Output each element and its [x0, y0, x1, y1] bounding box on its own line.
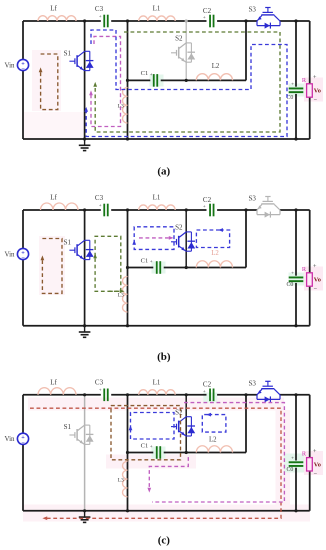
wash input loop (b) — [39, 236, 65, 295]
wire C0 branch (a) — [295, 21, 297, 87]
ground (b) — [84, 326, 86, 332]
current loop blue around L2 (b) — [196, 230, 229, 248]
capacitor C2 (c) — [209, 389, 211, 402]
wire top rail (a) — [23, 20, 101, 22]
svg-text:C3: C3 — [95, 5, 104, 13]
wash capacitor C1 (a) — [150, 75, 164, 87]
wire L3 branch (c) — [127, 395, 129, 511]
svg-text:−: − — [313, 470, 317, 477]
wire left rail (c) — [22, 395, 24, 511]
wash capacitor C0 (c) — [284, 454, 304, 473]
wash resistor R (a) — [304, 78, 323, 102]
wire left rail (a) — [22, 21, 24, 139]
current loop red (c) — [30, 408, 281, 518]
svg-text:−: − — [21, 255, 25, 262]
current arrow magenta (b) — [139, 237, 170, 239]
switch S3 (c) — [256, 395, 258, 400]
svg-text:+: + — [99, 204, 102, 209]
svg-text:L2: L2 — [212, 63, 220, 70]
svg-text:(c): (c) — [158, 535, 171, 547]
voltage source Vin (c) — [17, 433, 28, 444]
wash lower-left (a) — [24, 112, 84, 138]
svg-text:Vin: Vin — [4, 250, 15, 258]
node S2-top (b) — [185, 208, 188, 211]
wire S1 branch (b) — [84, 210, 86, 326]
node S1-bottom (a) — [83, 137, 86, 140]
svg-text:C1: C1 — [141, 70, 149, 77]
svg-text:L1: L1 — [153, 379, 161, 387]
svg-text:S1: S1 — [64, 238, 72, 246]
svg-text:(b): (b) — [157, 351, 171, 363]
svg-text:L2: L2 — [211, 250, 219, 257]
svg-text:C2: C2 — [203, 196, 212, 204]
svg-text:S2: S2 — [175, 35, 183, 43]
inductor L3 (a) — [123, 88, 128, 124]
svg-text:L2: L2 — [209, 436, 217, 443]
capacitor C3 (b) — [103, 204, 105, 217]
svg-text:−: − — [21, 440, 25, 447]
svg-text:Vin: Vin — [4, 61, 15, 69]
svg-text:L3: L3 — [118, 293, 124, 299]
inductor Lf (a) — [38, 16, 76, 21]
wash right band (c) — [276, 410, 291, 505]
wash input loop (a) — [32, 50, 61, 111]
inductor L1 (b) — [139, 205, 176, 210]
svg-text:S3: S3 — [248, 380, 256, 388]
node L3-bottom (a) — [126, 137, 129, 140]
ground (a) — [84, 139, 86, 145]
inductor L3 (c) — [123, 461, 128, 497]
svg-text:C1: C1 — [141, 257, 149, 264]
svg-text:+: + — [203, 16, 206, 21]
svg-text:+: + — [150, 73, 153, 78]
node join-top (c) — [244, 393, 247, 396]
wash capacitor C1 (b) — [152, 262, 166, 274]
node C0-bottom (a) — [294, 137, 297, 140]
node L3-bottom (b) — [126, 324, 129, 327]
wire S2 branch (c) — [185, 395, 187, 453]
inductor L1 (c) — [139, 390, 176, 395]
svg-text:L3: L3 — [118, 477, 124, 483]
node L3-top (c) — [126, 393, 129, 396]
resistor R load (a) — [307, 84, 313, 97]
inductor L2 (a) — [196, 74, 232, 81]
current loop blue around L1 (b) — [134, 227, 174, 250]
current loop magenta inner (c) — [149, 457, 188, 489]
node S1-bottom (c) — [83, 509, 86, 512]
capacitor C3 (a) — [103, 15, 105, 28]
inductor Lf (c) — [38, 388, 76, 395]
node S1-top (a) — [83, 19, 86, 22]
resistor R load (b) — [307, 273, 313, 286]
ground (c) — [84, 511, 86, 517]
svg-text:S3: S3 — [248, 6, 256, 14]
voltage source Vin (b) — [17, 248, 28, 259]
switch S3 (a) — [256, 21, 258, 26]
svg-text:−: − — [313, 97, 317, 104]
voltage source Vin (a) — [17, 59, 28, 70]
switch S1 (a) — [69, 60, 75, 62]
svg-text:C3: C3 — [95, 194, 104, 202]
svg-text:+: + — [150, 260, 153, 265]
node C0-top (c) — [294, 393, 297, 396]
wire top-mid join (c) — [245, 395, 247, 453]
node C0-top (a) — [294, 19, 297, 22]
current loop magenta outer (c) — [152, 403, 284, 502]
svg-text:S2: S2 — [175, 224, 183, 232]
svg-text:C0: C0 — [286, 282, 293, 288]
node C0-top (b) — [294, 208, 297, 211]
node S1-bottom (b) — [83, 324, 86, 327]
node L3-mid (c) — [126, 451, 129, 454]
wire bottom rail (a) — [23, 138, 310, 140]
node S2-mid (a) — [185, 79, 188, 82]
node S1-top (c) — [83, 393, 86, 396]
node S2-mid (c) — [185, 451, 188, 454]
svg-text:C1: C1 — [141, 442, 149, 449]
svg-text:+: + — [313, 263, 317, 270]
current loop green (b) — [95, 236, 121, 291]
node S2-mid (b) — [185, 266, 188, 269]
svg-text:Vo: Vo — [314, 88, 321, 95]
node L3-bottom (c) — [126, 509, 129, 512]
svg-text:Lf: Lf — [50, 378, 57, 386]
current loop blue around L2 (c) — [202, 415, 226, 433]
wire C0 branch (b) — [295, 210, 297, 276]
svg-text:+: + — [291, 82, 294, 88]
svg-text:−: − — [21, 66, 25, 73]
svg-text:C3: C3 — [95, 379, 104, 387]
wash mid band (c) — [106, 455, 196, 469]
capacitor C2 (a) — [209, 15, 211, 28]
current loop magenta (a) — [91, 36, 121, 126]
svg-text:L1: L1 — [153, 5, 161, 13]
inductor L1 (a) — [139, 16, 176, 21]
wire S2 branch (b) — [185, 210, 187, 268]
capacitor C0 (c) — [289, 461, 304, 463]
node C0-bottom (c) — [294, 509, 297, 512]
inductor L2 (c) — [196, 446, 232, 453]
svg-text:S3: S3 — [248, 195, 256, 203]
wire L3 branch (b) — [127, 210, 129, 326]
svg-text:C2: C2 — [203, 381, 212, 389]
wire top-mid join (b) — [245, 210, 247, 268]
switch S2 (b) — [171, 241, 177, 243]
switch S2 (c) — [171, 426, 177, 428]
svg-text:Vin: Vin — [4, 435, 15, 443]
switch S2 (a) — [171, 52, 177, 54]
node join-top (b) — [244, 208, 247, 211]
node C0-bottom (b) — [294, 324, 297, 327]
node L3-mid (a) — [126, 79, 129, 82]
wire right rail (b) — [309, 210, 311, 273]
node S1-top (b) — [83, 208, 86, 211]
wire L3 branch (a) — [127, 21, 129, 139]
current loop blue (a) — [86, 30, 287, 137]
capacitor C1 (a) — [153, 74, 155, 87]
wire S1 branch (a) — [84, 21, 86, 139]
svg-text:Vo: Vo — [314, 277, 321, 284]
svg-text:+: + — [291, 455, 294, 461]
current loop green (a) — [95, 32, 280, 132]
current loop brown (a) — [41, 54, 58, 110]
node L3-mid (b) — [126, 266, 129, 269]
wire left rail (b) — [22, 210, 24, 326]
inductor Lf (b) — [41, 203, 79, 210]
svg-text:+: + — [203, 390, 206, 395]
wire right rail (a) — [309, 21, 311, 84]
wire mid rail (a) — [128, 79, 151, 81]
wire top rail (b) — [23, 209, 101, 211]
switch S1 (c) — [69, 434, 75, 436]
svg-text:+: + — [150, 445, 153, 450]
svg-text:Lf: Lf — [50, 5, 57, 13]
wire bottom rail (c) — [23, 510, 310, 512]
current loop blue around L1 (c) — [131, 413, 175, 440]
capacitor C1 (c) — [156, 446, 158, 459]
wire mid rail (b) — [128, 267, 154, 269]
svg-text:+: + — [313, 74, 317, 81]
switch S1 (b) — [69, 249, 75, 251]
current loop brown (c) — [111, 406, 181, 460]
wash capacitor C1 (c) — [152, 447, 166, 459]
wire S1 branch (c) — [84, 395, 86, 511]
node L3-top (b) — [126, 208, 129, 211]
switch S3 (b) — [256, 210, 258, 215]
wire mid rail (c) — [128, 452, 154, 454]
svg-text:Lf: Lf — [50, 194, 57, 202]
wash top band (c) — [28, 398, 284, 411]
wire bottom rail (b) — [23, 325, 310, 327]
node L3-top (a) — [126, 19, 129, 22]
svg-text:+: + — [99, 389, 102, 394]
node S2-top (a) — [185, 19, 188, 22]
svg-text:(a): (a) — [157, 166, 170, 178]
svg-text:−: − — [313, 286, 317, 293]
svg-text:L1: L1 — [153, 194, 161, 202]
inductor L3 (b) — [123, 277, 128, 313]
wash capacitor C2 (c) — [203, 393, 217, 403]
capacitor C0 (a) — [289, 87, 304, 89]
node S2-top (c) — [185, 393, 188, 396]
svg-text:Vo: Vo — [314, 461, 321, 468]
inductor L2 (b) — [196, 261, 232, 268]
capacitor C1 (b) — [156, 261, 158, 274]
wash capacitor C0 (a) — [289, 84, 305, 97]
svg-text:+: + — [203, 205, 206, 210]
resistor R load (c) — [307, 458, 313, 471]
svg-text:+: + — [291, 271, 294, 277]
current loop brown (b) — [42, 239, 62, 294]
wire C0 branch (c) — [295, 395, 297, 461]
svg-text:+: + — [99, 15, 102, 20]
wash bottom band (c) — [23, 505, 310, 522]
node join-top (a) — [244, 19, 247, 22]
wash resistor R (c) — [304, 451, 323, 475]
wire top-mid join (a) — [245, 21, 247, 80]
wire top rail (c) — [23, 394, 101, 396]
svg-text:S2: S2 — [175, 408, 183, 416]
capacitor C0 (b) — [289, 276, 304, 278]
svg-text:+: + — [313, 448, 317, 455]
svg-text:S1: S1 — [64, 423, 72, 431]
capacitor C2 (b) — [209, 204, 211, 217]
wash resistor R (b) — [304, 267, 323, 291]
svg-text:C2: C2 — [203, 7, 212, 15]
capacitor C3 (c) — [103, 389, 105, 402]
svg-text:S1: S1 — [64, 49, 72, 57]
wire S2 branch (a) — [185, 21, 187, 80]
wash capacitor C0 (b) — [289, 273, 305, 286]
wire right rail (c) — [309, 395, 311, 458]
svg-text:C0: C0 — [286, 467, 293, 473]
